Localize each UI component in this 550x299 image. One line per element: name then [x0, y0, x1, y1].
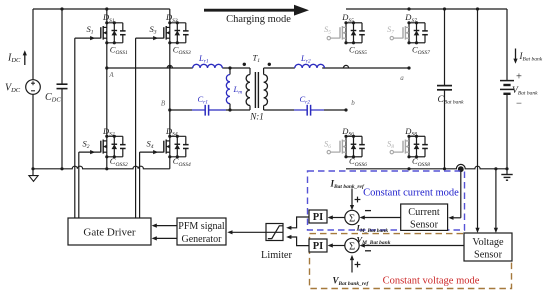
wire PI1 to limiter: [286, 217, 309, 230]
label S5: [324, 24, 331, 36]
svg-text:−: −: [516, 99, 522, 110]
wire: leg S1-S2: [106, 9, 108, 169]
label capacitor C_OSS7: [412, 45, 430, 57]
crossover hop A-line over S3 leg: [167, 65, 172, 68]
svg-text:Current: Current: [408, 207, 440, 218]
node b: [344, 108, 347, 111]
capacitor C_DC: [57, 9, 68, 169]
crossover hop a-line over S5 leg: [343, 65, 348, 68]
svg-text:A: A: [108, 71, 114, 79]
wire: voltage sense 2: [494, 169, 498, 233]
wire current sensor to sum1: [360, 215, 401, 219]
capacitor C_r1: [192, 105, 226, 116]
svg-text:PI: PI: [313, 212, 324, 223]
label A: [108, 71, 114, 79]
label I_DC: [7, 53, 21, 65]
inductor L_r1: [193, 64, 223, 68]
summing junction 1: [345, 210, 359, 224]
wire: node B line: [170, 109, 250, 111]
wire PI2 to limiter: [286, 235, 309, 246]
label S7: [387, 24, 394, 36]
wire: voltage sense 1: [475, 9, 479, 233]
label S1: [87, 24, 94, 36]
label diode D_S6: [341, 126, 354, 138]
summing junction 2: [345, 238, 359, 252]
current sense wire: [448, 169, 461, 220]
label capacitor C_OSS6: [349, 156, 367, 168]
transistor S6: [327, 135, 365, 159]
transistor S2: [79, 135, 126, 159]
wire: V_DC leg upper: [32, 9, 34, 80]
junction dot sense wire top: [476, 7, 479, 10]
label S8: [387, 138, 394, 150]
label Limiter: [261, 250, 292, 261]
transistor S3: [136, 21, 189, 44]
wire: node a line: [264, 67, 409, 69]
block PI 1: [309, 210, 327, 223]
transistor S1: [75, 21, 126, 44]
svg-text:b: b: [351, 99, 355, 107]
label battery plus: [516, 72, 522, 83]
minus sign sum1: [365, 210, 371, 212]
source V_DC: [26, 80, 41, 95]
junction dot voltage tap: [494, 167, 497, 170]
polarity dot primary: [243, 63, 246, 66]
transistor S8: [390, 135, 428, 159]
wire: gate S4: [139, 152, 141, 218]
junction dot C_Bat top: [443, 7, 446, 10]
label battery minus: [516, 99, 522, 110]
label a: [400, 74, 404, 82]
battery V_Bat bank: [500, 9, 514, 169]
label diode D_S7: [404, 12, 417, 24]
label capacitor C_OSS3: [173, 45, 191, 57]
label N:1: [249, 112, 264, 122]
junction dot S2 leg bottom: [105, 167, 108, 170]
wire: gate S3: [135, 38, 137, 218]
transformer core: [255, 72, 258, 108]
label C_DC: [45, 92, 61, 104]
transistor S7: [390, 21, 428, 44]
node B: [168, 108, 171, 111]
junction dot S7 leg top: [407, 7, 410, 10]
label diode D_S5: [341, 12, 354, 24]
svg-text:N:1: N:1: [249, 112, 264, 122]
svg-text:PI: PI: [313, 241, 324, 252]
label diode D_S2: [102, 126, 115, 138]
label diode D_S4: [165, 126, 178, 138]
wire sum1 to PI1: [328, 215, 345, 219]
label capacitor C_OSS5: [349, 45, 367, 57]
inductor L_r2: [295, 64, 325, 68]
label Charging mode: [226, 14, 291, 25]
label S2: [83, 138, 90, 150]
svg-text:Gate Driver: Gate Driver: [83, 227, 136, 239]
svg-text:Charging mode: Charging mode: [226, 14, 291, 25]
svg-text:+: +: [516, 72, 522, 83]
label V_Bat bank: [512, 86, 538, 97]
block Gate Driver: [68, 218, 151, 245]
svg-text:Constant current mode: Constant current mode: [363, 188, 459, 199]
ground (primary): [29, 169, 38, 182]
label C_r1: [198, 94, 209, 106]
label capacitor C_OSS2: [110, 156, 128, 168]
wire sum2 to PI2: [328, 243, 345, 247]
wire PFM to Gate Driver 1: [152, 224, 177, 228]
wire PFM to Gate Driver 2: [152, 236, 177, 240]
ground (secondary): [501, 169, 512, 180]
wire: V_DC leg lower: [32, 94, 34, 169]
junction dot C_Bat bottom: [443, 167, 446, 170]
svg-text:Generator: Generator: [182, 234, 223, 245]
junction dot C_DC top: [60, 7, 63, 10]
plus sign sum2: [355, 262, 361, 268]
label V_M_Bat bank: [357, 235, 391, 247]
constant current mode dashed box: [308, 171, 465, 230]
current tap dot: [458, 166, 464, 172]
node A: [105, 66, 108, 69]
minus sign sum2: [365, 250, 371, 252]
wire: gate S2: [78, 152, 80, 218]
junction dot C_DC bottom: [60, 167, 63, 170]
junction dot battery bottom: [505, 167, 508, 170]
label L_r1: [198, 53, 209, 65]
label diode D_S3: [165, 12, 178, 24]
svg-text:a: a: [400, 74, 404, 82]
wire: secondary top rail: [346, 8, 507, 10]
label I_Bat bank_ref: [330, 179, 365, 191]
charging mode arrow: [204, 5, 309, 16]
wire: node A line: [107, 67, 250, 69]
wire: secondary bottom rail with hops: [346, 164, 507, 168]
wire I ref into sum1: [350, 189, 354, 211]
label capacitor C_OSS1: [110, 45, 128, 57]
block Voltage Sensor: [464, 233, 512, 261]
transformer T1 secondary winding: [264, 68, 268, 110]
label B: [161, 100, 166, 108]
inductor L_m: [226, 66, 231, 111]
label V_Bat bank_ref: [333, 276, 370, 288]
label T_1: [253, 53, 261, 65]
label S3: [150, 24, 157, 36]
constant voltage mode dashed box: [310, 234, 512, 289]
label V_DC: [5, 83, 21, 95]
label C_Bat bank: [438, 95, 465, 106]
wire: gate S1: [74, 38, 76, 218]
svg-text:Σ: Σ: [349, 214, 355, 225]
transformer T1 primary winding: [246, 68, 250, 110]
label I_Bat bank: [519, 51, 543, 63]
svg-text:Voltage: Voltage: [472, 237, 504, 248]
label b: [351, 99, 355, 107]
node a: [407, 66, 410, 69]
wire voltage sensor to sum2: [360, 243, 464, 247]
svg-text:PFM signal: PFM signal: [178, 221, 225, 232]
block PI 2: [309, 239, 327, 252]
svg-text:B: B: [161, 100, 166, 108]
junction dot S8 leg bottom: [407, 167, 410, 170]
label S6: [324, 138, 331, 150]
arrow I_DC: [23, 50, 27, 65]
arrow I_Bat bank: [513, 49, 517, 64]
transistor S4: [140, 135, 189, 159]
label L_m: [233, 84, 243, 96]
wire: primary bottom rail with hops: [33, 166, 170, 169]
label Constant current mode: [363, 188, 459, 199]
wire: leg S3-S4: [169, 9, 171, 169]
wire Limiter to PFM: [227, 230, 283, 234]
block PFM signal Generator: [177, 218, 226, 245]
label Constant voltage mode: [383, 276, 480, 287]
junction dot ground: [31, 167, 34, 170]
svg-text:Constant voltage mode: Constant voltage mode: [383, 276, 480, 287]
svg-text:Limiter: Limiter: [261, 250, 292, 261]
wire: node b line: [264, 109, 346, 111]
label diode D_S8: [404, 126, 417, 138]
label capacitor C_OSS4: [173, 156, 191, 168]
capacitor C_r2: [294, 105, 324, 116]
svg-text:Sensor: Sensor: [410, 219, 439, 230]
label capacitor C_OSS8: [412, 156, 430, 168]
label C_r2: [300, 94, 311, 106]
label S4: [147, 138, 154, 150]
label diode D_S1: [102, 12, 115, 24]
wire V ref into sum2: [350, 255, 354, 273]
transistor S5: [327, 21, 365, 44]
svg-text:Σ: Σ: [349, 242, 355, 253]
wire: primary top rail: [33, 8, 170, 10]
block Limiter: [266, 224, 283, 241]
polarity dot secondary: [268, 63, 271, 66]
svg-text:Sensor: Sensor: [474, 250, 503, 261]
plus sign sum1: [355, 197, 361, 203]
block Current Sensor: [401, 204, 448, 230]
label L_r2: [300, 53, 311, 65]
label I_M_Bat bank: [356, 222, 389, 234]
junction dot S1 leg top: [105, 7, 108, 10]
capacitor C_Bat bank: [437, 9, 452, 169]
